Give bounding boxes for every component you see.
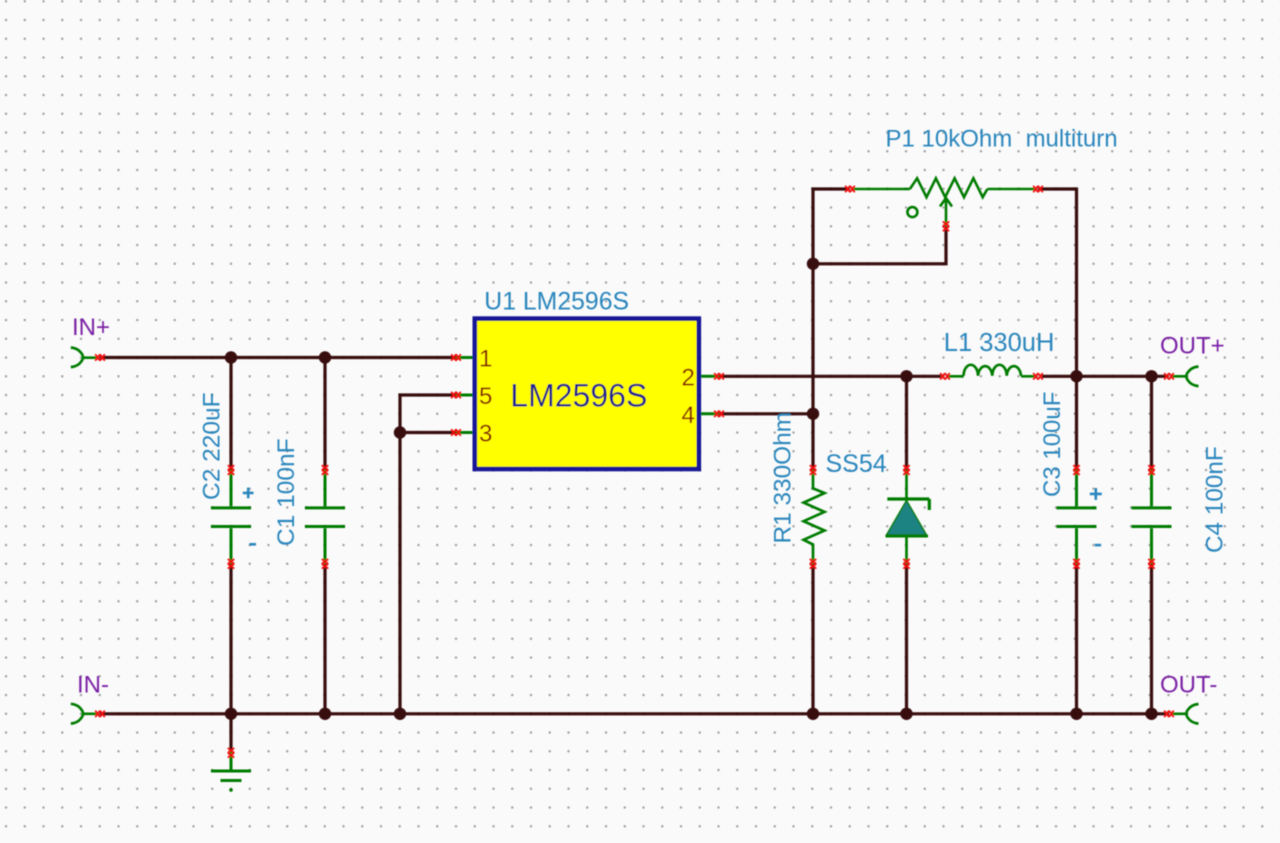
pin mark C2 top	[228, 466, 233, 475]
diode SS54 triangle	[887, 501, 927, 536]
junction pin3/pin5 gnd column	[394, 426, 406, 438]
wire pin2 rail right of L1	[1042, 375, 1169, 378]
capacitor C3 plus sign	[1090, 488, 1102, 500]
wire pot left vertical	[813, 189, 850, 414]
wire R1 bottom to rail	[811, 564, 814, 714]
junction bottom rail C2/gnd	[225, 708, 237, 720]
pin mark R1 bottom	[810, 560, 815, 569]
pin mark C4 bottom	[1149, 560, 1154, 569]
pin mark IN-	[96, 711, 105, 716]
svg-text:1: 1	[479, 346, 492, 373]
junction top rail C2	[225, 351, 237, 363]
junction bottom rail C4	[1145, 708, 1157, 720]
port OUT- symbol	[1171, 704, 1199, 724]
wire pot wiper down-left	[813, 226, 946, 263]
diode SS54 cathode bar	[887, 499, 929, 510]
capacitor C2 symbol	[211, 470, 251, 564]
wire C1 top drop	[323, 358, 326, 471]
svg-text:P1 10kOhm multiturn: P1 10kOhm multiturn	[886, 126, 1118, 153]
resistor R1 symbol	[804, 470, 825, 564]
svg-text:C4 100nF: C4 100nF	[1202, 446, 1229, 553]
ground dot	[229, 788, 233, 792]
junction bottom rail C1	[319, 708, 331, 720]
svg-text:LM2596S: LM2596S	[510, 377, 647, 413]
capacitor C3 symbol	[1057, 470, 1097, 564]
pin mark diode top	[904, 466, 909, 475]
junction bottom rail diode	[900, 708, 912, 720]
inductor L1 symbol	[948, 365, 1035, 377]
pin mark C3 top	[1074, 466, 1079, 475]
svg-text:OUT+: OUT+	[1160, 333, 1225, 360]
wire IN- bottom rail	[100, 712, 1169, 715]
pin mark IN+	[96, 355, 105, 360]
capacitor C2 plus sign	[243, 488, 254, 499]
pin mark diode bottom	[904, 560, 909, 569]
wire IN+ top rail	[100, 356, 456, 359]
wire pin4 to R1 top	[719, 412, 813, 415]
wire R1 top lead	[811, 414, 814, 470]
pin mark L1 right	[1034, 374, 1043, 379]
pin mark OUT-	[1165, 711, 1174, 716]
svg-text:OUT-: OUT-	[1160, 672, 1217, 699]
junction top rail C1	[319, 351, 331, 363]
junction bottom rail gnd column	[394, 708, 406, 720]
pin mark C4 top	[1149, 466, 1154, 475]
pin mark C3 bottom	[1074, 560, 1079, 569]
diode SS54 bottom bar	[886, 535, 929, 538]
potentiometer P1 zigzag	[910, 178, 988, 197]
ground symbol	[211, 752, 251, 781]
junction bottom rail R1	[807, 708, 819, 720]
svg-text:C3 100uF: C3 100uF	[1039, 392, 1066, 497]
wire C3 bottom to rail	[1075, 564, 1078, 714]
wire pot right vertical	[1038, 189, 1077, 376]
wire C4 bottom to rail	[1150, 564, 1153, 714]
pin mark P1 left	[846, 186, 855, 191]
capacitor C3 minus sign	[1095, 544, 1101, 547]
pin mark U1 pin1	[452, 355, 461, 360]
potentiometer P1 right lead	[987, 188, 1035, 191]
junction bottom rail C3	[1070, 708, 1082, 720]
svg-text:IN+: IN+	[72, 314, 110, 341]
pin mark OUT+	[1165, 374, 1174, 379]
port IN+ symbol	[71, 348, 97, 368]
svg-text:4: 4	[681, 402, 694, 429]
svg-text:2: 2	[681, 364, 694, 391]
wire diode top lead	[905, 376, 908, 470]
svg-text:3: 3	[479, 421, 492, 448]
wire pin5 to gnd column	[400, 395, 456, 714]
pin mark ground	[228, 749, 233, 758]
potentiometer P1 circle mark	[907, 207, 917, 217]
U1 pin 2 stub	[701, 375, 719, 378]
capacitor C4 symbol	[1132, 470, 1172, 564]
U1 pin 4 stub	[701, 412, 719, 415]
pin mark U1 pin2	[715, 374, 724, 379]
op-amp U1 body	[475, 319, 699, 469]
svg-text:U1 LM2596S: U1 LM2596S	[484, 289, 629, 316]
wire C3 top drop	[1075, 376, 1078, 470]
pin mark U1 pin3	[452, 430, 461, 435]
pin mark U1 pin4	[715, 411, 724, 416]
potentiometer P1 left lead	[852, 188, 910, 191]
wire ground drop	[229, 714, 232, 752]
wire C1 bottom	[323, 564, 326, 714]
pin mark C2 bottom	[228, 560, 233, 569]
wire pin2 rail left of L1	[719, 375, 941, 378]
wire pin3 stub to gnd column	[400, 431, 456, 434]
diode SS54 bottom lead	[905, 536, 908, 564]
U1 pin 5 stub	[456, 394, 473, 397]
capacitor C2 minus sign	[250, 543, 257, 546]
pin mark L1 left	[941, 374, 950, 379]
capacitor C1 symbol	[305, 470, 345, 564]
wire C2 top drop	[229, 358, 232, 471]
svg-text:5: 5	[479, 383, 492, 410]
wire diode bottom to rail	[905, 564, 908, 714]
port IN- symbol	[71, 704, 97, 724]
pin mark R1 top	[810, 466, 815, 475]
pin mark C1 top	[322, 466, 327, 475]
diode SS54 top lead	[905, 470, 908, 499]
pin mark U1 pin5	[452, 392, 461, 397]
junction pin2 rail C3	[1070, 370, 1082, 382]
svg-text:R1 330Ohm: R1 330Ohm	[770, 412, 797, 544]
port OUT+ symbol	[1171, 367, 1199, 387]
pin mark P1 right	[1034, 186, 1043, 191]
wire C2 bottom	[229, 564, 232, 714]
junction pot wiper/left	[807, 258, 819, 270]
pin mark P1 wiper	[943, 222, 948, 231]
junction pin4/R1/pot	[807, 408, 819, 420]
svg-text:IN-: IN-	[77, 672, 109, 699]
svg-text:C1 100nF: C1 100nF	[273, 438, 300, 546]
svg-text:C2 220uF: C2 220uF	[199, 392, 226, 500]
junction pin2 rail C4	[1145, 370, 1157, 382]
potentiometer P1 wiper arrow	[940, 198, 952, 226]
pin mark C1 bottom	[322, 560, 327, 569]
svg-text:L1 330uH: L1 330uH	[944, 329, 1055, 357]
U1 pin 1 stub	[456, 356, 473, 359]
U1 pin 3 stub	[456, 431, 473, 434]
svg-text:SS54: SS54	[826, 450, 887, 478]
junction pin2/diode	[900, 370, 912, 382]
wire C4 top drop	[1150, 376, 1153, 470]
